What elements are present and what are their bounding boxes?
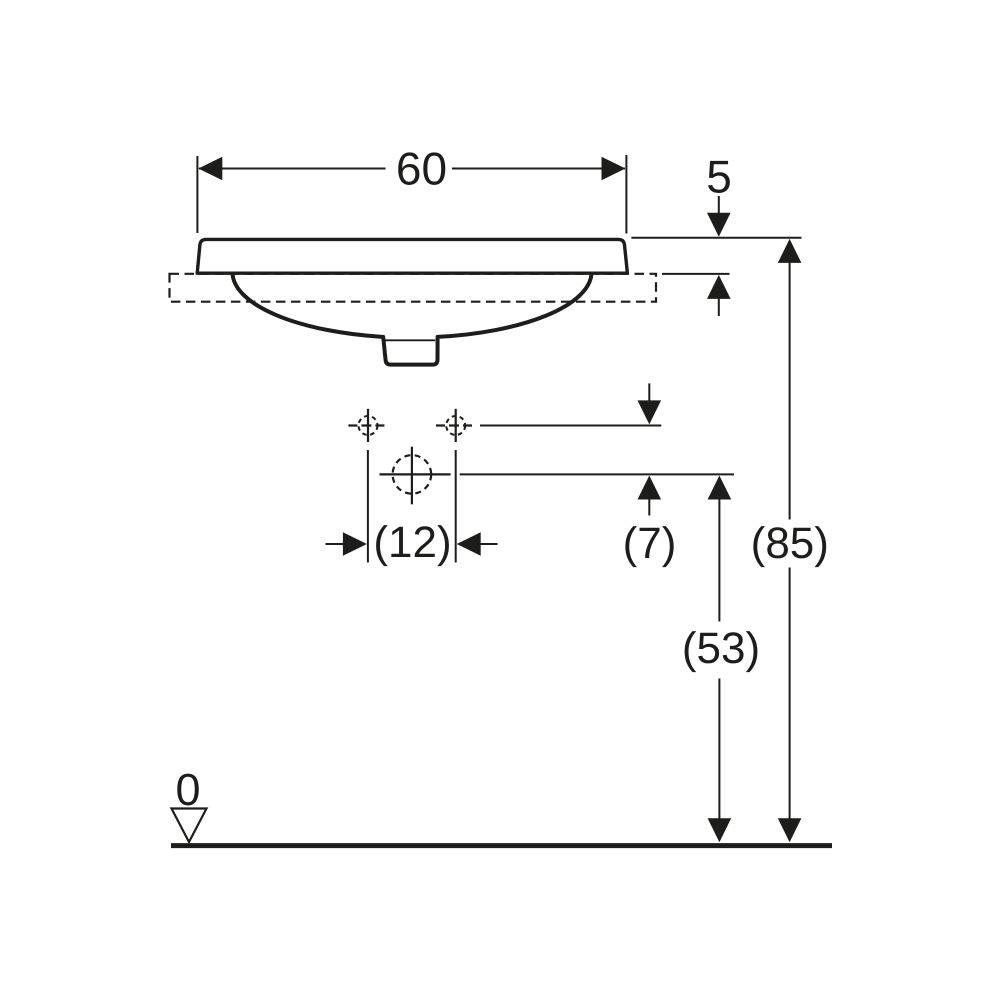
dim 7: upper arrowhead (down) <box>638 400 662 424</box>
dim 5: upper arrow tail <box>718 196 720 216</box>
svg-text:5: 5 <box>706 151 732 203</box>
dim 5: lower arrow tail <box>718 296 720 316</box>
svg-text:(12): (12) <box>373 518 451 567</box>
faucet hole left: dashed circle <box>359 416 378 435</box>
dim 12: right arrowhead (left-pointing) <box>457 532 481 556</box>
datum 0: triangle symbol <box>172 809 207 843</box>
dim 12: left arrowhead (right-pointing) <box>343 532 367 556</box>
dim 5: upper arrowhead (down) <box>707 213 731 237</box>
dim 60: right extension line <box>625 155 627 234</box>
svg-text:60: 60 <box>396 143 447 195</box>
dim 53: line lower part <box>718 679 720 823</box>
dim 85: upper arrowhead (up) <box>778 239 802 263</box>
dim 12: left tail <box>326 543 346 545</box>
faucet hole right: horizontal centerline <box>436 424 475 426</box>
drain hole: horizontal centerline <box>380 473 451 475</box>
svg-text:(7): (7) <box>623 519 677 568</box>
dim 12: right tail <box>479 543 498 545</box>
faucet hole left: vertical centerline <box>367 409 369 442</box>
dim 12: right extension line <box>455 450 457 563</box>
dim 60: dimension line left part <box>199 168 386 170</box>
floor line <box>171 843 832 848</box>
dim 12: left extension line <box>367 450 369 563</box>
dim 7: lower arrowhead (up) <box>638 476 662 500</box>
dim 85: line upper part <box>789 260 791 520</box>
dim 53: lower arrowhead (down) <box>708 818 732 842</box>
drain hole: dashed circle <box>393 455 432 494</box>
svg-text:(85): (85) <box>751 519 829 568</box>
dim 85: line lower part <box>789 568 791 823</box>
dim 60: left arrowhead <box>198 157 222 181</box>
faucet holes level line <box>480 425 661 427</box>
dim 7: upper arrow tail <box>648 383 650 402</box>
svg-text:(53): (53) <box>682 624 760 673</box>
countertop level line (right) <box>662 273 730 275</box>
dim 53: line upper part <box>718 497 720 622</box>
dim 53: upper arrowhead (up) <box>708 476 732 500</box>
washbasin rim slab <box>197 239 627 273</box>
faucet hole left: horizontal centerline <box>348 424 387 426</box>
dim 60: left extension line <box>196 156 198 233</box>
faucet hole right: dashed circle <box>446 416 465 435</box>
svg-text:0: 0 <box>175 764 200 815</box>
dim 60: right arrowhead <box>602 157 626 181</box>
rim top level line (right) <box>631 237 801 239</box>
basin bowl outline with drain recess <box>233 273 592 364</box>
countertop cutout dashed rectangle <box>170 274 657 302</box>
drain hole: vertical centerline <box>411 447 413 505</box>
drain level line <box>460 473 734 475</box>
dim 85: lower arrowhead (down) <box>778 818 802 842</box>
dim 60: dimension line right part <box>452 168 625 170</box>
faucet hole right: vertical centerline <box>455 409 457 442</box>
dim 7: lower arrow tail <box>648 497 650 516</box>
drain opening thin line <box>386 339 436 341</box>
dim 5: lower arrowhead (up) <box>707 275 731 299</box>
